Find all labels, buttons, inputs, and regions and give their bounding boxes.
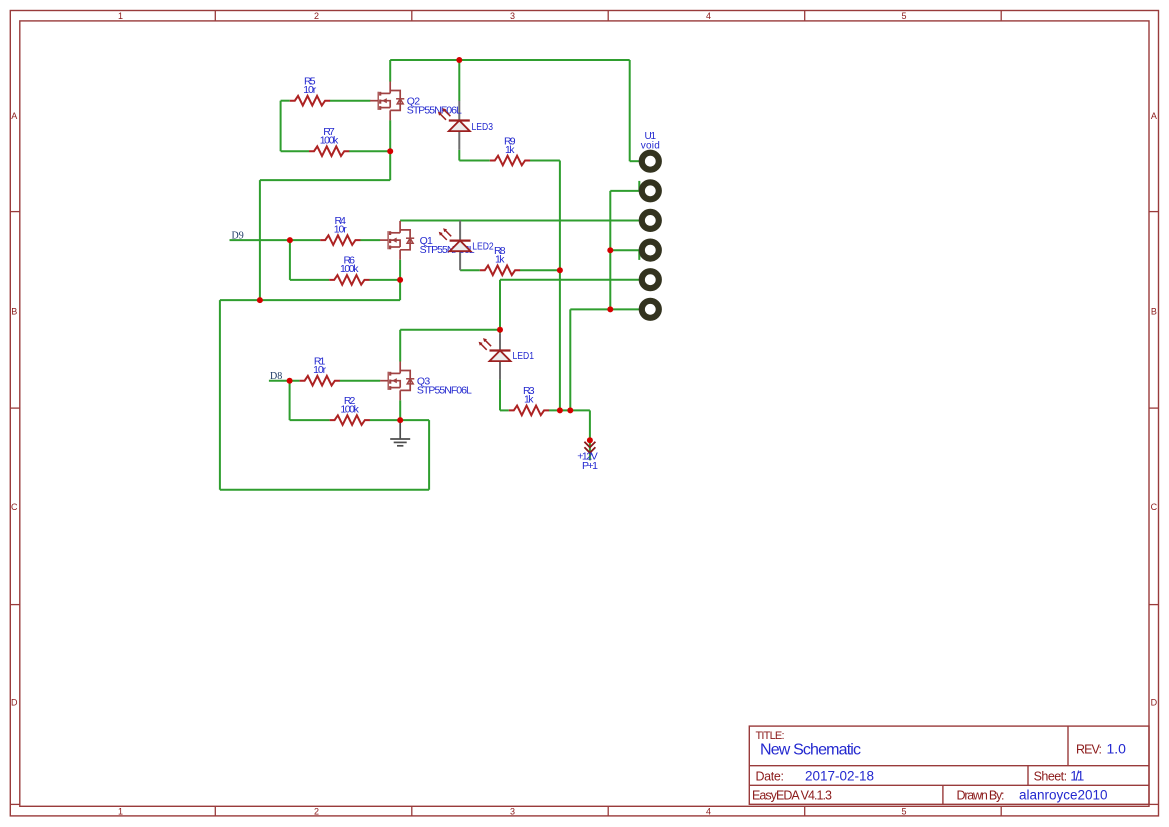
title block frame	[749, 726, 1149, 804]
resistor R3	[509, 406, 549, 416]
svg-text:void: void	[641, 140, 660, 151]
svg-text:STP55NF06L: STP55NF06L	[417, 385, 472, 397]
wire: source chain vertical	[259, 180, 261, 300]
resistor R1	[300, 376, 340, 386]
wire: down to +12V	[589, 410, 591, 440]
wire: to ground node	[400, 419, 429, 421]
resistor R4	[320, 235, 360, 245]
wire: into R6 left	[290, 279, 329, 281]
svg-text:C: C	[1151, 502, 1158, 512]
junction LED1 / pin5 riser	[497, 327, 503, 333]
junction R7 / Q2 source	[387, 148, 393, 154]
svg-text:100k: 100k	[340, 263, 359, 275]
svg-text:1k: 1k	[524, 394, 534, 406]
svg-text:B: B	[1151, 307, 1157, 317]
svg-text:2: 2	[314, 11, 319, 21]
svg-text:LED2: LED2	[472, 241, 494, 253]
svg-text:TITLE:: TITLE:	[756, 730, 785, 742]
wire: R8 to right rail	[520, 269, 560, 271]
wire: U1 feed vertical	[609, 191, 611, 310]
svg-text:LED1: LED1	[513, 350, 535, 362]
label Q2 STP55NF06L	[407, 96, 462, 117]
wire: R9 to right rail	[530, 160, 560, 162]
wire: left loop bottom	[220, 489, 429, 491]
svg-text:D: D	[1151, 698, 1158, 708]
wire: source chain horizontal	[260, 179, 390, 181]
LED1 pins	[499, 333, 501, 379]
power flag +12V P+1	[584, 442, 595, 453]
LED LED1	[479, 338, 511, 361]
wire: Q1 source link	[399, 280, 401, 300]
label R3 value 1k	[523, 385, 535, 406]
junction D8 node	[287, 378, 293, 384]
svg-text:2017-02-18: 2017-02-18	[805, 769, 874, 784]
LED LED2	[439, 228, 471, 251]
wire: LED1 top stub	[499, 330, 501, 334]
svg-text:Drawn By:: Drawn By:	[957, 789, 1005, 803]
junction +12V pin	[587, 437, 593, 443]
wire: U1 pin4 stub	[638, 250, 640, 260]
junction U1 pin4 feed	[607, 247, 613, 253]
svg-text:100k: 100k	[320, 135, 339, 147]
label R9 value 1k	[504, 135, 516, 156]
svg-text:1k: 1k	[495, 254, 505, 266]
wire: down to U1 pin1	[629, 60, 631, 161]
svg-text:10r: 10r	[313, 364, 327, 376]
wire: D8 down to R2	[289, 381, 291, 420]
junction source chain	[257, 297, 263, 303]
svg-text:10r: 10r	[334, 223, 348, 235]
wire: U1 pin6 rail	[570, 308, 639, 310]
svg-text:New Schematic: New Schematic	[760, 742, 861, 759]
junction Q1 source / R6	[397, 277, 403, 283]
LED LED3	[438, 108, 470, 131]
LED2 pins	[459, 221, 461, 271]
svg-text:A: A	[11, 111, 17, 121]
wire: Q2 drain stub	[389, 60, 391, 82]
wire: U1 pin2 rail	[610, 190, 639, 192]
svg-text:EasyEDA V4.1.3: EasyEDA V4.1.3	[752, 789, 832, 803]
svg-text:P+1: P+1	[582, 460, 598, 472]
wire: R7 to Q2 source node	[349, 150, 390, 152]
wire: U1 pin2 stub	[638, 181, 640, 191]
junction D9 node	[287, 237, 293, 243]
svg-text:D: D	[11, 698, 18, 708]
svg-text:3: 3	[510, 11, 515, 21]
wire: Q3 source stub	[399, 400, 401, 420]
svg-text:5: 5	[901, 11, 906, 21]
svg-text:D8: D8	[270, 371, 282, 382]
wire: R2 to Q3 source node	[370, 419, 401, 421]
wire: Q2 source down	[389, 151, 391, 180]
wire: left loop vertical	[219, 300, 221, 490]
svg-text:1k: 1k	[505, 144, 515, 156]
svg-text:B: B	[11, 307, 17, 317]
transistor Q1 (N-MOSFET STP55NF06L)	[380, 221, 414, 260]
svg-text:10r: 10r	[303, 84, 317, 96]
wire: R6 to Q1 source node	[369, 279, 400, 281]
wire: +drain rail top	[390, 59, 630, 61]
wire: net D9	[230, 239, 321, 241]
wire: LED3 to R9	[459, 160, 490, 162]
svg-text:Date:: Date:	[756, 770, 785, 784]
svg-text:D9: D9	[232, 231, 244, 242]
wire: R4 to Q1 gate	[360, 239, 380, 241]
svg-text:C: C	[11, 502, 18, 512]
title block text	[752, 730, 1102, 803]
junction U1 pin6 feed	[607, 306, 613, 312]
label R8 value 1k	[494, 245, 506, 266]
wire: D9 down to R6	[289, 240, 291, 280]
junction LED3 / top rail	[456, 57, 462, 63]
junction Q3 source / R2 / GND	[397, 417, 403, 423]
wire: U1 pin4 rail	[610, 249, 639, 251]
svg-text:1/1: 1/1	[1070, 769, 1084, 784]
resistor R2	[330, 415, 370, 425]
svg-text:4: 4	[706, 11, 711, 21]
transistor Q3 (N-MOSFET STP55NF06L)	[380, 362, 414, 401]
wire: +12V pin stub	[589, 440, 591, 460]
junction R8 / right rail	[557, 267, 563, 273]
wire: into R2 left	[290, 419, 330, 421]
wire: Q3 drain to LED1	[400, 329, 500, 331]
transistor Q2 (N-MOSFET STP55NF06L)	[370, 82, 404, 121]
wire: right vertical rail	[559, 161, 561, 411]
junction right rail / bottom rail	[557, 407, 563, 413]
wire: Q3 drain up	[399, 330, 401, 362]
label Q3 STP55NF06L	[417, 376, 472, 397]
wire: LED2 to R8	[460, 269, 480, 271]
svg-text:2: 2	[314, 807, 319, 817]
resistor R8	[480, 266, 520, 276]
wire: LED3 top stub	[458, 60, 460, 101]
connector U1 (void) pads	[642, 153, 659, 318]
wire: net D8	[269, 380, 300, 382]
svg-text:4: 4	[706, 807, 711, 817]
wire: into R3 left	[500, 409, 509, 411]
svg-text:1.0: 1.0	[1107, 741, 1127, 757]
label R7 value 100k	[320, 126, 339, 147]
wire: R5-R7 left link	[280, 101, 282, 152]
wire: U1 pin6 riser	[569, 309, 571, 410]
resistor R7	[309, 146, 349, 156]
wire: LED3 bottom stub	[458, 150, 460, 161]
wire: Q2 source stub	[389, 120, 391, 151]
label R5 value 10r	[303, 76, 317, 97]
svg-text:5: 5	[901, 807, 906, 817]
LED3 pins	[458, 101, 460, 150]
svg-text:Sheet:: Sheet:	[1034, 770, 1068, 784]
svg-text:100k: 100k	[340, 403, 359, 415]
svg-text:REV:: REV:	[1076, 743, 1102, 757]
svg-text:LED3: LED3	[472, 121, 494, 133]
svg-text:STP55NF06L: STP55NF06L	[407, 105, 462, 117]
label Q1 STP55NF06L	[420, 235, 475, 256]
wire: LED1 to U1 pin5 riser	[499, 280, 501, 330]
svg-text:3: 3	[510, 807, 515, 817]
wire: into R5 left	[281, 100, 290, 102]
wire: source chain lower	[220, 299, 400, 301]
label R6 value 100k	[340, 255, 359, 276]
wire: LED1 bottom stub	[499, 380, 501, 411]
svg-text:1: 1	[118, 11, 123, 21]
label R1 value 10r	[313, 356, 327, 377]
resistor R6	[329, 275, 369, 285]
wire: into R7 left	[281, 150, 309, 152]
svg-text:alanroyce2010: alanroyce2010	[1019, 788, 1108, 803]
wire: loop riser	[428, 420, 430, 490]
svg-text:A: A	[1151, 111, 1157, 121]
wire: Q1 drain to U1 pin3	[400, 220, 639, 222]
resistor R9	[490, 156, 530, 166]
wire: Q1 source stub	[399, 260, 401, 280]
wire: R1 to Q3 gate	[340, 380, 381, 382]
wire: R3 to supply corner	[549, 409, 590, 411]
ground symbol	[390, 421, 410, 446]
junction pin6 riser / bottom rail	[567, 407, 573, 413]
label U1 void	[641, 131, 660, 152]
svg-text:1: 1	[118, 807, 123, 817]
label R4 value 10r	[334, 215, 348, 236]
resistor R5	[290, 96, 330, 106]
wire: U1 pin5 rail	[500, 279, 640, 281]
wire: into U1 pin1	[630, 160, 640, 162]
label R2 value 100k	[340, 395, 359, 416]
wire: R5 to Q2 gate	[330, 100, 371, 102]
